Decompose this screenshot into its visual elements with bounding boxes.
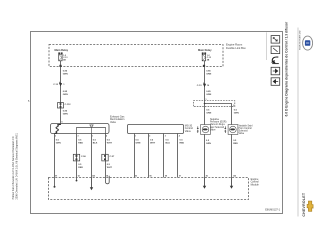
svg-text:CHEVROLET: CHEVROLET bbox=[302, 192, 306, 216]
svg-text:WHT: WHT bbox=[150, 142, 156, 144]
EGR position sensor potentiometer R1 bbox=[77, 128, 106, 134]
wire: branch inside C-94 bbox=[205, 101, 232, 107]
svg-text:Horn Control: Horn Control bbox=[239, 127, 253, 130]
wire label below C-112 bbox=[63, 110, 68, 115]
ECM terminal: w1 test point bbox=[54, 178, 56, 188]
wire label U2 w4 bbox=[180, 139, 185, 144]
svg-text:RED: RED bbox=[78, 142, 83, 144]
wire: U2 pin3 to ECM bbox=[163, 134, 165, 178]
svg-text:6: 6 bbox=[62, 121, 63, 123]
wire: U2 pin2 to ECM bbox=[148, 134, 150, 178]
wire label U2 w1 bbox=[136, 139, 141, 144]
wire label EGR w4 bbox=[107, 139, 113, 144]
wire: C-94 to solenoid SV2 bbox=[231, 107, 233, 125]
svg-text:99: 99 bbox=[150, 176, 152, 178]
wire label (right mid) bbox=[206, 91, 211, 96]
svg-text:3: 3 bbox=[78, 135, 79, 137]
label: Variable Intake Horn Control Solenoid Valve bbox=[239, 124, 253, 135]
svg-text:97: 97 bbox=[179, 176, 181, 178]
svg-text:C-57: C-57 bbox=[110, 156, 116, 158]
svg-text:Valve: Valve bbox=[185, 130, 192, 133]
control valve box U2 bbox=[128, 125, 184, 134]
svg-text:GRN: GRN bbox=[56, 142, 61, 144]
wire: relay K1 to box edge bbox=[60, 61, 62, 67]
svg-text:Variable Swirl: Variable Swirl bbox=[239, 124, 253, 127]
wire label EGR w1 bbox=[56, 139, 61, 144]
svg-text:Valve: Valve bbox=[210, 129, 216, 131]
wire label GRN C-106 (left mid) bbox=[63, 91, 68, 96]
svg-text:WHT: WHT bbox=[107, 142, 113, 144]
wire label SV2 out bbox=[233, 140, 238, 145]
svg-text:RED: RED bbox=[78, 167, 83, 169]
svg-text:GRN: GRN bbox=[63, 113, 68, 115]
wire: SV1 to ECM bbox=[204, 135, 206, 178]
wire label above SV2 bbox=[234, 109, 239, 114]
svg-text:lator Solenoid: lator Solenoid bbox=[210, 126, 225, 129]
wire: relay K2 to box edge bbox=[204, 61, 206, 67]
wire label EGR w3 bbox=[93, 139, 98, 144]
connector C-94 (dashed pass-through strip) bbox=[193, 101, 234, 107]
svg-text:BLU: BLU bbox=[166, 142, 171, 144]
svg-text:Pressure (EGR): Pressure (EGR) bbox=[210, 121, 227, 124]
ECM terminal: w2 stub bbox=[76, 178, 78, 182]
toolbar button: prev arrow bbox=[271, 78, 280, 86]
svg-text:4: 4 bbox=[106, 134, 107, 137]
pin square at box edge (K1) bbox=[59, 65, 61, 67]
svg-text:90: 90 bbox=[135, 176, 137, 178]
label: Negative Pressure Vacuum Regulator Solenoid Valve bbox=[210, 118, 227, 131]
svg-text:Negative: Negative bbox=[210, 118, 220, 121]
svg-text:GRN: GRN bbox=[63, 74, 68, 76]
potentiometer wiper bbox=[90, 125, 93, 134]
page edge line bbox=[297, 28, 299, 217]
svg-text:1: 1 bbox=[92, 135, 93, 137]
label: MS-30 Control Valve bbox=[185, 124, 194, 133]
toolbar button: zoom-extents bbox=[271, 36, 280, 44]
svg-text:RED: RED bbox=[180, 142, 185, 144]
svg-text:C-56: C-56 bbox=[81, 156, 87, 158]
wire: right main feed (x 204) bbox=[204, 67, 206, 101]
wire label U2 w3 bbox=[166, 139, 171, 144]
relay K2 (Main Relay, right) bbox=[198, 48, 212, 61]
svg-text:6.6 D Engine Diagrams dependie: 6.6 D Engine Diagrams dependientes de Co… bbox=[284, 21, 288, 116]
svg-text:1: 1 bbox=[206, 99, 207, 101]
toolbar separator line bbox=[266, 32, 268, 60]
ECM box (dashed) bbox=[49, 178, 249, 200]
toolbar button: next arrow bbox=[271, 67, 280, 75]
label: Exhaust Gas Recirculation Valve bbox=[110, 115, 125, 124]
EGR valve assembly box bbox=[51, 124, 110, 134]
connector C-112 (inline 2-pin box, left wire) bbox=[58, 103, 72, 108]
svg-text:Valve: Valve bbox=[110, 121, 117, 124]
svg-text:87: 87 bbox=[55, 176, 57, 178]
svg-text:GRN: GRN bbox=[206, 143, 211, 145]
connector C-57 (inline 2-pin box on w4) bbox=[102, 154, 115, 161]
relay K2 pin labels bbox=[207, 55, 211, 62]
svg-text:2: 2 bbox=[55, 135, 56, 137]
toolbar button: zoom-line bbox=[271, 46, 280, 54]
svg-text:105: 105 bbox=[92, 176, 95, 178]
svg-text:GRN: GRN bbox=[63, 94, 68, 96]
ECM terminal: SV2 internal ground arrow bbox=[230, 178, 233, 189]
wire label U2 w2 bbox=[150, 139, 156, 144]
wire label (right upper) bbox=[206, 71, 211, 76]
label: Engine Control Module bbox=[251, 178, 260, 187]
svg-text:C-13: C-13 bbox=[53, 84, 59, 86]
wire label SV1 out bbox=[206, 140, 211, 145]
svg-text:BLK: BLK bbox=[93, 142, 98, 144]
connector C-13 (inline, right wire) bbox=[197, 83, 210, 88]
svg-text:94: 94 bbox=[106, 175, 108, 178]
svg-text:3: 3 bbox=[165, 135, 166, 137]
relay K1 (Main Relay, left) bbox=[55, 48, 69, 61]
wire: EGR pin4 to ECM (x105) bbox=[105, 134, 107, 178]
wire label below C-56 bbox=[78, 164, 83, 169]
wire: EGR pin3 to ECM (x76.5) bbox=[76, 134, 78, 178]
wire: U2 pin1 to ECM bbox=[134, 134, 136, 178]
svg-text:85: 85 bbox=[206, 176, 208, 178]
ECM pin numbers bbox=[55, 175, 236, 178]
wire: EGR pin1 wiper to ECM (x91) bbox=[91, 134, 93, 178]
wire label above SV1 bbox=[206, 109, 211, 114]
svg-text:C-13: C-13 bbox=[197, 85, 203, 87]
svg-text:RED: RED bbox=[233, 143, 238, 145]
pin numbers below EGR box bbox=[55, 121, 107, 137]
wire label below C-57 bbox=[107, 164, 113, 169]
svg-text:C-112: C-112 bbox=[65, 104, 72, 106]
wire: C-94 to solenoid SV1 bbox=[204, 107, 206, 125]
svg-text:E6UM0137-1: E6UM0137-1 bbox=[265, 208, 280, 211]
svg-text:2: 2 bbox=[233, 105, 234, 107]
wire label EGR w2 bbox=[78, 139, 83, 144]
svg-text:GRN: GRN bbox=[206, 74, 211, 76]
svg-text:GRN: GRN bbox=[234, 112, 239, 114]
svg-text:WHT: WHT bbox=[107, 167, 113, 169]
svg-text:Module: Module bbox=[251, 183, 260, 186]
svg-text:106: 106 bbox=[233, 176, 236, 178]
solenoid valve SV2 bbox=[225, 125, 238, 135]
pin numbers below control valve box bbox=[135, 134, 180, 137]
wire: U2 pin4 to ECM bbox=[177, 134, 179, 178]
page frame bbox=[31, 32, 283, 214]
svg-text:GRN: GRN bbox=[206, 112, 211, 114]
ECM terminal: SV1 internal ground arrow bbox=[203, 178, 206, 189]
svg-text:Valve: Valve bbox=[239, 133, 245, 135]
node: branch junction bbox=[204, 103, 206, 105]
svg-text:93: 93 bbox=[78, 176, 80, 178]
svg-text:ISUZU MOTORS LTD: ISUZU MOTORS LTD bbox=[299, 30, 301, 50]
wire: EGR pin2 to ECM (x54) bbox=[54, 134, 56, 178]
wire: left main feed (x 60.5) bbox=[60, 67, 62, 124]
relay K1 pin labels bbox=[63, 55, 67, 62]
connector C-13 (inline, left wire) bbox=[53, 82, 65, 87]
svg-text:4: 4 bbox=[179, 134, 180, 137]
svg-text:GRN: GRN bbox=[206, 94, 211, 96]
solenoid valve SV1 bbox=[197, 125, 210, 135]
toolbar glyph: print/flip bbox=[272, 57, 279, 64]
pin labels at C-94 bbox=[206, 99, 235, 107]
svg-text:2006 Chevrolet LUV D-MAX 3.5L: 2006 Chevrolet LUV D-MAX 3.5L V6 Electri… bbox=[15, 132, 18, 199]
connector C-56 (inline 2-pin box on w2) bbox=[73, 154, 86, 161]
svg-text:Fusible Link Box: Fusible Link Box bbox=[226, 46, 246, 50]
EGR solenoid coil L1 bbox=[55, 124, 61, 134]
svg-text:98: 98 bbox=[165, 176, 167, 178]
engine room fusible link box (dashed) bbox=[49, 45, 223, 67]
pin square at box edge (K2) bbox=[203, 65, 205, 67]
svg-text:2: 2 bbox=[149, 135, 150, 137]
ECM terminal: w4 hook bbox=[106, 176, 110, 184]
svg-text:Main Relay: Main Relay bbox=[198, 48, 212, 52]
wire: SV2 to ECM bbox=[231, 135, 233, 178]
wire label GRN 0.85 (left upper) bbox=[63, 71, 68, 76]
svg-text:Main Relay: Main Relay bbox=[55, 48, 69, 52]
ECM terminal: w3 internal ground arrow bbox=[90, 178, 93, 191]
svg-text:GRN: GRN bbox=[136, 142, 141, 144]
publisher logo (oval) bbox=[303, 36, 313, 50]
Chevrolet bowtie (rotated) bbox=[307, 201, 313, 211]
label: Engine Room Fusible Link Box bbox=[226, 43, 246, 50]
